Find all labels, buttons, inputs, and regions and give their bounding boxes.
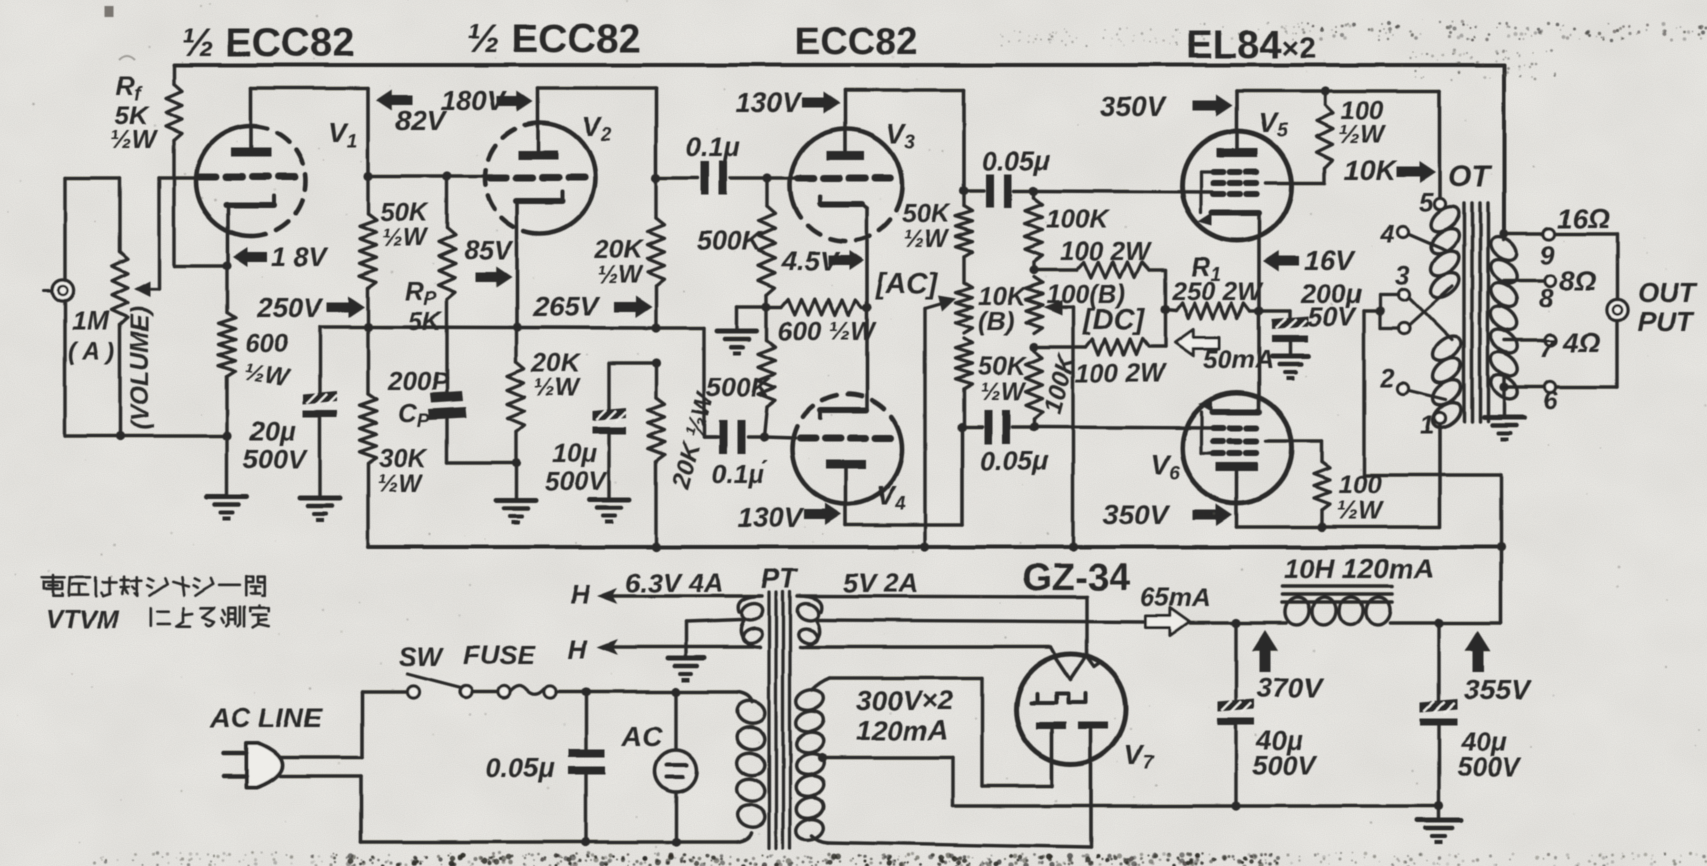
- svg-text:0.1μ: 0.1μ: [686, 132, 740, 162]
- terminal 4: [1379, 219, 1446, 250]
- V2 plate: [518, 88, 558, 160]
- junction cathode bias node: [1254, 306, 1263, 315]
- label PT: [761, 563, 800, 594]
- label 50K 1/2W (V1): [380, 197, 430, 252]
- svg-text:½ ECC82: ½ ECC82: [181, 21, 354, 65]
- label R1 250 2W: [1171, 252, 1264, 306]
- wire heater H1: [597, 588, 762, 604]
- capacitor 200u 50V: [1272, 316, 1308, 342]
- wire plug neutral: [280, 776, 361, 842]
- label V7: [1124, 739, 1155, 774]
- V4 plate: [826, 460, 866, 525]
- V3 cathode: [820, 196, 867, 307]
- wire Cp to 20K bottom node: [447, 418, 516, 463]
- svg-text:130V: 130V: [737, 502, 805, 533]
- svg-text:4Ω: 4Ω: [1562, 327, 1601, 358]
- svg-text:300V×2: 300V×2: [856, 685, 954, 716]
- junction V3 grid node: [762, 173, 771, 182]
- svg-text:250 2W: 250 2W: [1171, 276, 1264, 306]
- wire 10u to ground: [607, 434, 610, 500]
- wire OT1 to V6 plate: [1438, 424, 1442, 527]
- capacitor 10u 500V: [592, 408, 626, 434]
- potentiometer 1M (A) VOLUME: [112, 252, 128, 325]
- junction V4 plate / 0.05u node: [957, 422, 966, 431]
- wire V4 plate bottom: [846, 427, 962, 525]
- label V4: [876, 480, 906, 515]
- svg-text:50mA: 50mA: [1203, 344, 1274, 374]
- label 100 1/2W (V5): [1338, 95, 1387, 149]
- potentiometer 10K (B): [956, 257, 973, 333]
- V2 grid: [490, 175, 584, 182]
- capacitor 0.1u (V3 grid): [656, 161, 767, 195]
- junction cathode return: [222, 431, 231, 440]
- svg-text:600 ½W: 600 ½W: [778, 316, 877, 346]
- potentiometer 100 (B) DC balance: [1026, 277, 1043, 333]
- switch SW: [407, 674, 498, 698]
- svg-text:0.05μ: 0.05μ: [486, 753, 555, 783]
- svg-text:7: 7: [1539, 333, 1555, 363]
- svg-text:350V: 350V: [1100, 91, 1168, 122]
- V6 g1 dashes: [1213, 425, 1257, 431]
- junction 0.05u lower out: [1029, 422, 1038, 431]
- AC voltmeter: [655, 692, 697, 842]
- junction choke output: [1434, 618, 1443, 627]
- terminal 3: [1395, 260, 1410, 300]
- svg-text:100 2W: 100 2W: [1075, 358, 1167, 388]
- svg-text:130V: 130V: [735, 87, 803, 118]
- label 100K (upper): [1046, 204, 1110, 234]
- wire V2 plate top: [538, 88, 656, 178]
- wire plate node to V2 grid: [368, 174, 492, 178]
- svg-text:100K: 100K: [1046, 204, 1110, 234]
- svg-text:[AC]: [AC]: [875, 268, 939, 300]
- voltage arrow 85V: [464, 235, 514, 288]
- wire 5V center tap / B+ takeoff: [818, 620, 1146, 622]
- label EL84x2 (V5/V6 header): [1186, 23, 1316, 67]
- svg-text:500V: 500V: [1252, 750, 1317, 780]
- label 50K 1/2W (lower): [978, 351, 1028, 406]
- label 40u 500V (output): [1457, 727, 1522, 782]
- label 100 2W (upper): [1060, 236, 1152, 266]
- junction HV center tap: [817, 753, 826, 762]
- label GZ-34: [1022, 557, 1130, 599]
- wire 5V lead B: [806, 647, 1056, 656]
- wire feedback rail right drop: [1502, 65, 1506, 234]
- wire 200u cap stub: [1259, 311, 1290, 319]
- svg-text:½W: ½W: [597, 261, 644, 289]
- junction AC at rail: [920, 542, 929, 551]
- wire V5 plate line: [1237, 89, 1440, 93]
- svg-text:8Ω: 8Ω: [1559, 265, 1597, 296]
- wire HV top: [812, 678, 1052, 786]
- label [DC]: [1082, 304, 1146, 336]
- label 10K arrow: [1344, 155, 1436, 186]
- wire choke out to B+ rail: [1439, 547, 1501, 623]
- label AC LINE: [209, 702, 323, 733]
- label 1/2 ECC82 (V1 header): [181, 21, 354, 65]
- junction 0.05u upper out: [1029, 186, 1038, 195]
- label OT: [1448, 160, 1492, 193]
- wire 6 to bus: [1556, 385, 1617, 388]
- AC balance wiper arrow: [925, 295, 956, 311]
- label 40u 500V (input): [1252, 725, 1317, 780]
- svg-text:0.05μ: 0.05μ: [982, 146, 1051, 176]
- terminal 4ohm tap: [1504, 327, 1601, 363]
- svg-text:355V: 355V: [1464, 674, 1532, 705]
- junction 10u tap: [651, 358, 660, 367]
- wire return to ground: [225, 437, 228, 497]
- label 20K 1/2W (a): [531, 348, 582, 402]
- svg-text:[DC]: [DC]: [1082, 304, 1146, 336]
- svg-text:3: 3: [1395, 260, 1410, 290]
- label 100 1/2W (V6): [1336, 469, 1385, 525]
- label 20K 1/2W rotated: [666, 388, 719, 492]
- tube V1 envelope: [196, 126, 306, 236]
- junction V3/V4 cathode node: [862, 302, 871, 311]
- svg-text:OUT: OUT: [1637, 277, 1699, 308]
- svg-text:50K: 50K: [902, 198, 952, 228]
- PT HV winding: [794, 687, 826, 843]
- svg-text:370V: 370V: [1257, 672, 1325, 703]
- svg-text:( A ): ( A ): [68, 338, 115, 366]
- label 100K rotated: [1039, 350, 1082, 417]
- tube V3 envelope: [790, 129, 902, 241]
- svg-text:5V 2A: 5V 2A: [843, 568, 918, 598]
- resistor 20K 1/2W (to B rail): [648, 363, 665, 547]
- svg-text:5: 5: [1419, 187, 1434, 217]
- capacitor 0.05u (lower): [962, 410, 1034, 444]
- junction 40u output bottom: [1434, 801, 1443, 810]
- choke 10H 120mA: [1236, 595, 1439, 626]
- svg-text:PUT: PUT: [1637, 306, 1696, 337]
- svg-text:20K: 20K: [594, 234, 645, 264]
- wire secondary to ground: [1502, 387, 1505, 417]
- ground (V3 bias node): [717, 331, 757, 355]
- capacitor 0.1u (V4 grid): [704, 420, 764, 454]
- wire Rf to cathode node: [174, 140, 227, 266]
- OT crossover wires: [1409, 286, 1452, 340]
- capacitor 0.05u (AC line): [568, 692, 605, 842]
- svg-text:OT: OT: [1448, 160, 1492, 193]
- wire B- to ground: [1437, 806, 1440, 820]
- svg-text:½W: ½W: [382, 224, 429, 252]
- wire pot bottom: [118, 325, 121, 436]
- wire input return left: [65, 300, 227, 436]
- svg-text:2: 2: [1379, 363, 1395, 393]
- V3 plate: [826, 90, 864, 160]
- current arrow 50mA: [1175, 330, 1274, 374]
- DC balance wiper arrow: [1043, 300, 1073, 315]
- resistor 100 1/2W (V6 g2): [1266, 441, 1330, 527]
- resistor 100 1/2W (V5 g2): [1266, 91, 1333, 183]
- terminal 8ohm tap: [1504, 265, 1597, 313]
- svg-text:PT: PT: [761, 563, 800, 594]
- label H (2): [568, 634, 588, 664]
- resistor 100 2W (upper): [1034, 262, 1149, 278]
- resistor 100 2W (lower): [1034, 339, 1149, 355]
- junction DC at rail: [1068, 542, 1077, 551]
- V1 plate: [231, 88, 271, 157]
- voltage arrow 250V: [256, 292, 365, 323]
- wire V6 plate line: [1237, 525, 1439, 529]
- wire cathode node to 600ohm: [225, 266, 228, 312]
- junction V6 plate 100ohm: [1317, 522, 1326, 531]
- V6 g3-cathode strap: [1201, 412, 1213, 453]
- svg-text:30K: 30K: [379, 443, 429, 473]
- label 0.1u (V4): [712, 459, 768, 489]
- svg-text:AC LINE: AC LINE: [209, 702, 323, 733]
- resistor 50K 1/2W (upper on ladder): [956, 191, 973, 257]
- capacitor Cp 200P: [428, 391, 467, 420]
- voltage arrow 130V (V4): [737, 502, 842, 533]
- voltage arrow 355V: [1464, 630, 1532, 705]
- resistor 50K 1/2W (V1 plate load): [360, 176, 377, 327]
- label 100 (B): [1046, 279, 1125, 309]
- wire 250V node to 20u cap: [320, 327, 368, 394]
- note line2 (VTVM, Japanese): [46, 604, 269, 634]
- OT core: [1464, 203, 1488, 421]
- V6 g3 dashes: [1213, 450, 1257, 456]
- ground (OT secondary): [1484, 417, 1524, 441]
- V6 cathode: [1198, 311, 1259, 412]
- junction 40u input bottom: [1231, 801, 1240, 810]
- voltage arrow 350V (V6): [1103, 499, 1233, 530]
- V7 anode right: [1078, 722, 1108, 842]
- svg-text:SW: SW: [399, 642, 445, 672]
- label ECC82 (V3/V4 header): [795, 21, 918, 63]
- rectifier winding 5V 2A: [795, 596, 822, 647]
- wire into V4 grid: [764, 437, 795, 438]
- wire DC wiper down: [1071, 307, 1074, 547]
- ground (V1 cathode return): [207, 497, 247, 521]
- svg-text:16Ω: 16Ω: [1557, 203, 1610, 234]
- svg-text:16V: 16V: [1304, 245, 1356, 276]
- terminal 2: [1379, 363, 1446, 400]
- label 100 2W (lower): [1075, 358, 1167, 388]
- label AC: [621, 721, 663, 752]
- wire to V5 grid: [1034, 191, 1212, 192]
- wire 20K bottom to ground: [514, 463, 517, 500]
- svg-text:6.3V 4A: 6.3V 4A: [626, 568, 724, 598]
- voltage arrow 82V: [376, 90, 447, 137]
- voltage arrow 180V: [440, 85, 533, 116]
- wire plate line to OT5: [1438, 91, 1442, 198]
- wire pot top lead: [118, 178, 121, 252]
- wire HV bottom: [812, 731, 1091, 847]
- V1 cathode: [226, 196, 274, 266]
- label 10u 500V: [545, 438, 608, 496]
- label 600 1/2W: [242, 328, 292, 392]
- junction 20K bottom: [511, 458, 520, 467]
- terminal 5: [1419, 187, 1446, 217]
- label 6.3V 4A: [626, 568, 724, 598]
- OT secondary loops: [1486, 232, 1521, 403]
- junction choke input: [1231, 618, 1240, 627]
- bracket right of 100-2W pair: [1149, 270, 1165, 347]
- svg-text:0.05μ: 0.05μ: [980, 446, 1049, 476]
- svg-text:5K: 5K: [408, 306, 443, 336]
- V4 grid dashes: [800, 435, 891, 442]
- svg-text:1 8V: 1 8V: [271, 242, 329, 272]
- junction 500K bottom: [762, 302, 771, 311]
- label (VOLUME): [126, 306, 154, 430]
- resistor 500K (V4 grid): [759, 307, 776, 437]
- svg-text:9: 9: [1540, 240, 1555, 270]
- choke core: [1282, 586, 1392, 602]
- svg-text:AC: AC: [621, 721, 663, 752]
- tube V4 envelope: [792, 394, 902, 504]
- svg-text:H: H: [570, 580, 590, 610]
- junction V2 plate node: [651, 173, 660, 182]
- wire AC wiper down: [923, 308, 926, 547]
- OT primary lower loops: [1429, 332, 1466, 433]
- tube V5 envelope: [1182, 131, 1292, 241]
- svg-text:50K: 50K: [978, 351, 1028, 381]
- junction R1 left node: [1160, 305, 1169, 314]
- label 1/2 ECC82 (V2 header): [467, 17, 640, 61]
- terminal 16ohm: [1540, 203, 1610, 270]
- junction 250V node: [363, 322, 372, 331]
- label V2: [582, 111, 612, 146]
- junction V2 cathode node: [512, 322, 521, 331]
- svg-text:100 2W: 100 2W: [1060, 236, 1152, 266]
- wire main rail: [368, 545, 1501, 549]
- svg-text:85V: 85V: [464, 235, 514, 265]
- wire to V6 grid: [1034, 427, 1212, 428]
- svg-text:½W: ½W: [1338, 119, 1387, 149]
- label 500K (V3): [697, 226, 764, 256]
- resistor 50K 1/2W (lower on ladder): [956, 338, 973, 427]
- V5 g1 dashes: [1213, 191, 1257, 197]
- V4 cathode: [820, 410, 867, 418]
- svg-text:0.1μ́: 0.1μ́: [712, 459, 768, 489]
- junction secondary ground: [1499, 382, 1508, 391]
- label 0.05u (lower): [980, 446, 1049, 476]
- pot wiper arrow: [134, 281, 159, 297]
- svg-text:500K: 500K: [697, 226, 764, 256]
- junction V5 plate 100ohm: [1320, 86, 1329, 95]
- V7 middle electrode: [1031, 694, 1085, 703]
- wire plug live: [280, 692, 407, 757]
- label V3: [886, 118, 916, 153]
- wire 20u to ground: [318, 417, 321, 498]
- svg-text:65mA: 65mA: [1140, 582, 1211, 612]
- wire cathode link to V4: [865, 307, 869, 410]
- V6 g2 dashes: [1213, 438, 1257, 444]
- svg-text:10H 120mA: 10H 120mA: [1283, 553, 1434, 584]
- label Rp 5K: [405, 276, 443, 336]
- svg-text:ECC82: ECC82: [795, 21, 918, 63]
- svg-text:FUSE: FUSE: [463, 640, 536, 670]
- svg-text:½W: ½W: [110, 124, 159, 154]
- label FUSE: [463, 640, 536, 670]
- ground (main B-): [1417, 820, 1461, 844]
- junction Rp top: [442, 171, 451, 180]
- label 30K 1/2W: [377, 443, 429, 498]
- label 5V 2A: [843, 568, 918, 598]
- label Rf 5K 1/2W: [110, 71, 159, 154]
- svg-text:500V: 500V: [1457, 752, 1522, 782]
- junction 100-2W lower node: [1029, 342, 1038, 351]
- output bus: [1615, 234, 1618, 387]
- svg-text:10K: 10K: [1344, 155, 1397, 186]
- V5 g3 dashes: [1213, 169, 1257, 175]
- ground (200u cap): [1272, 356, 1308, 380]
- junction V3 plate / 0.05u node: [959, 186, 968, 195]
- tube V6 envelope: [1182, 393, 1292, 503]
- V5 g3-cathode strap: [1201, 172, 1213, 213]
- junction 0.05u bottom: [581, 837, 590, 846]
- resistor 100K (upper): [1026, 191, 1043, 270]
- V3 grid dashes: [798, 175, 890, 182]
- resistor 600 1/2W (V1 cathode): [219, 312, 236, 377]
- wire secondary bottom: [1504, 375, 1544, 387]
- svg-text:250V: 250V: [256, 292, 325, 323]
- wire jack to pot top: [65, 178, 120, 280]
- svg-text:½W: ½W: [903, 225, 950, 253]
- ground (20K/Cp node): [496, 500, 536, 524]
- wire 10u tap: [609, 363, 656, 411]
- wire 200u to ground: [1288, 342, 1291, 356]
- label [AC]: [875, 268, 939, 300]
- wire wiper to grid: [159, 178, 200, 289]
- ground (20u cap): [300, 498, 340, 522]
- svg-text:1M: 1M: [72, 306, 110, 336]
- resistor 600 1/2W (V3-V4 cathode): [767, 299, 867, 315]
- label 10H 120mA: [1283, 553, 1434, 584]
- label 200u 50V: [1300, 279, 1362, 332]
- svg-text:GZ-34: GZ-34: [1022, 557, 1130, 599]
- V1 grid: [199, 174, 295, 181]
- svg-text:1: 1: [1420, 410, 1434, 440]
- svg-text:500V: 500V: [545, 466, 608, 496]
- current arrow 65mA: [1140, 582, 1236, 636]
- wire to ground stub: [737, 307, 767, 331]
- wire HV center tap to B-: [822, 758, 1439, 806]
- label OUT PUT: [1637, 277, 1699, 337]
- resistor Rp 5K: [439, 176, 456, 300]
- resistor 30K 1/2W: [360, 327, 377, 547]
- ground (10u cap): [589, 500, 629, 524]
- heater winding 6.3V 4A: [738, 596, 765, 647]
- junction 100-2W upper node: [1029, 265, 1038, 274]
- svg-text:H: H: [568, 634, 588, 664]
- svg-text:500K: 500K: [706, 372, 773, 402]
- capacitor 40u 500V (input): [1218, 623, 1255, 806]
- ground (heater CT): [668, 658, 704, 682]
- label 500K (V4): [706, 372, 773, 402]
- wire bottom return: [361, 833, 751, 842]
- svg-text:500V: 500V: [243, 444, 308, 474]
- wire 600ohm to return: [225, 377, 228, 437]
- junction 265V node: [651, 323, 660, 332]
- wire 16ohm to bus: [1555, 232, 1617, 235]
- wire V3 plate top: [845, 90, 964, 191]
- svg-text:8: 8: [1539, 283, 1554, 313]
- terminal 6: [1543, 382, 1558, 416]
- label SW: [399, 642, 445, 672]
- voltage arrow 265V: [532, 291, 652, 322]
- svg-text:120mA: 120mA: [856, 715, 948, 746]
- svg-text:½W: ½W: [534, 374, 581, 402]
- V5 cathode: [1198, 213, 1259, 311]
- resistor 100K (lower, rotated label): [1026, 351, 1043, 427]
- label 50K 1/2W (upper): [902, 198, 952, 253]
- svg-text:½W: ½W: [980, 378, 1027, 406]
- svg-text:200P: 200P: [387, 366, 449, 396]
- label 1M (A): [68, 306, 115, 366]
- wire Rp to Cp: [445, 300, 448, 393]
